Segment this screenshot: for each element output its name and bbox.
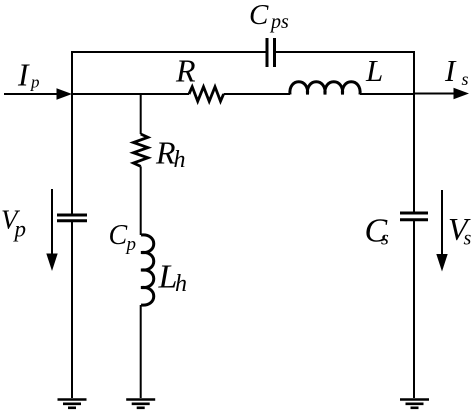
wire top horizontal left segment (71, 51, 266, 53)
wire right rail lower (413, 221, 415, 398)
label Is (444, 53, 469, 89)
label Cs (365, 213, 390, 250)
label Cps (249, 0, 289, 33)
capacitor primary (Vp) (57, 215, 87, 221)
svg-text:p: p (125, 234, 137, 255)
label Vp (1, 205, 26, 242)
wire left rail lower (71, 222, 73, 398)
label Vs (448, 211, 472, 250)
arrow Is (414, 88, 469, 99)
arrow Ip (4, 88, 72, 99)
arrow Vp (46, 189, 57, 271)
wire main horizontal segment 2 (224, 93, 290, 95)
wire left rail upper (71, 51, 73, 214)
svg-text:I: I (17, 58, 30, 93)
wire top horizontal right segment (275, 51, 415, 53)
svg-text:s: s (462, 69, 469, 89)
label Ip (17, 58, 40, 93)
capacitor Cs (400, 213, 428, 220)
arrow Vs (436, 190, 447, 272)
capacitor Cps (267, 38, 275, 67)
svg-text:s: s (464, 228, 472, 250)
wire main horizontal segment 1 (71, 93, 189, 95)
svg-text:C: C (109, 220, 128, 251)
svg-text:p: p (30, 72, 40, 91)
wire middle rail mid (140, 166, 142, 235)
ground right (400, 400, 429, 408)
inductor L (290, 82, 360, 95)
resistor R (189, 87, 224, 102)
svg-text:R: R (175, 53, 196, 89)
wire middle rail upper (140, 94, 142, 134)
inductor Lh (141, 235, 154, 305)
svg-text:p: p (13, 217, 27, 242)
label Lh (158, 259, 188, 298)
svg-text:ps: ps (269, 11, 289, 33)
ground left (58, 400, 87, 408)
svg-text:I: I (444, 53, 457, 88)
ground middle (126, 400, 155, 408)
svg-text:h: h (175, 271, 187, 297)
svg-text:L: L (365, 53, 383, 88)
label Cp (109, 220, 137, 255)
svg-text:s: s (381, 227, 389, 249)
wire main horizontal segment 3 (360, 93, 415, 95)
wire middle rail lower (140, 305, 142, 398)
label Rh (155, 135, 186, 174)
svg-text:C: C (249, 0, 269, 31)
svg-text:h: h (174, 147, 186, 173)
wire right rail upper (413, 51, 415, 212)
resistor Rh (133, 134, 148, 166)
